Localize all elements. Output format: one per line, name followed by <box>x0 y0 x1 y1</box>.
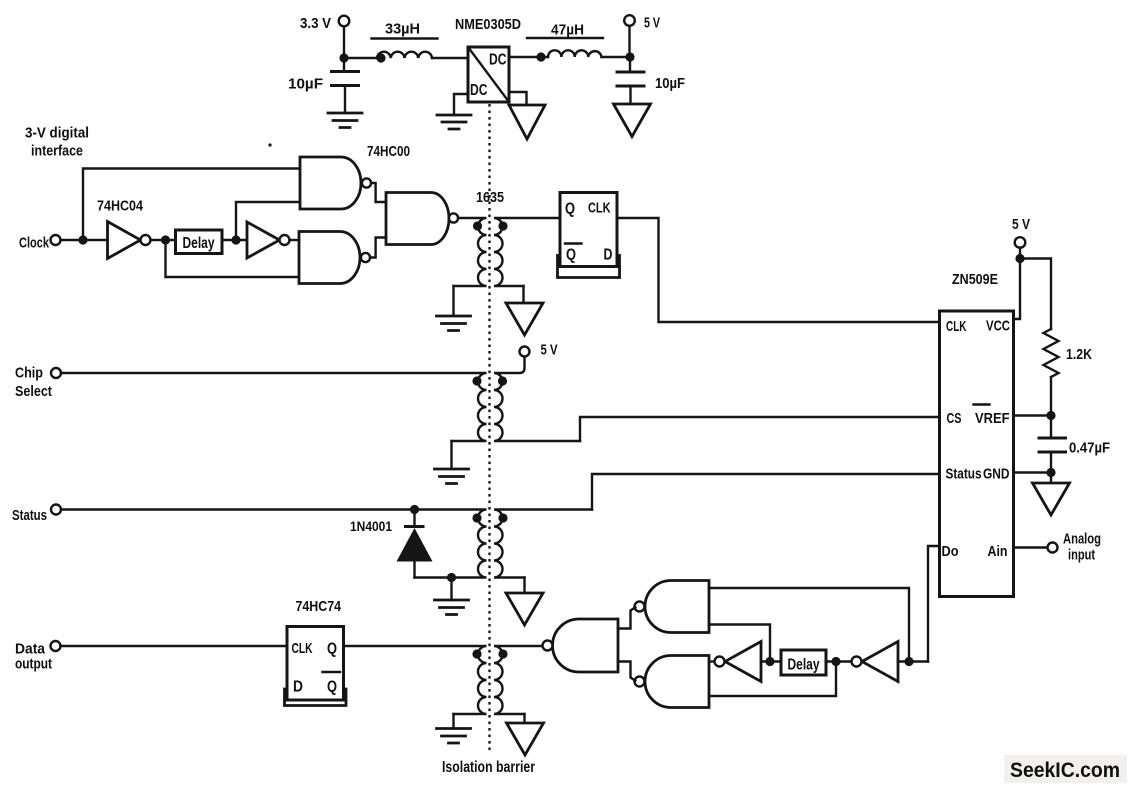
svg-text:10µF: 10µF <box>655 75 685 92</box>
svg-text:DC: DC <box>470 82 488 99</box>
svg-text:0.47µF: 0.47µF <box>1069 440 1110 457</box>
svg-text:VCC: VCC <box>986 318 1010 335</box>
svg-text:output: output <box>15 656 52 673</box>
svg-text:1N4001: 1N4001 <box>350 518 392 534</box>
svg-text:CS: CS <box>947 410 962 427</box>
svg-text:74HC74: 74HC74 <box>296 598 342 615</box>
svg-text:10µF: 10µF <box>288 76 323 93</box>
svg-text:Clock: Clock <box>19 235 49 252</box>
svg-text:interface: interface <box>31 143 83 160</box>
svg-text:Status: Status <box>946 466 982 483</box>
svg-text:5 V: 5 V <box>644 15 660 32</box>
svg-text:CLK: CLK <box>946 318 967 335</box>
svg-text:1635: 1635 <box>476 189 504 206</box>
svg-text:input: input <box>1068 547 1095 564</box>
svg-text:NME0305D: NME0305D <box>455 16 521 33</box>
svg-text:Chip: Chip <box>15 365 43 382</box>
svg-text:VREF: VREF <box>975 410 1010 427</box>
svg-text:D: D <box>293 679 303 696</box>
svg-text:ZN509E: ZN509E <box>952 271 998 288</box>
svg-text:Ain: Ain <box>988 543 1008 560</box>
svg-text:3-V digital: 3-V digital <box>25 125 89 142</box>
svg-text:Q: Q <box>566 247 576 264</box>
svg-text:D: D <box>604 247 613 264</box>
svg-text:5 V: 5 V <box>541 342 558 359</box>
svg-text:74HC04: 74HC04 <box>97 198 144 215</box>
svg-text:CLK: CLK <box>588 200 611 217</box>
svg-text:Delay: Delay <box>788 657 820 674</box>
svg-text:Q: Q <box>327 641 337 658</box>
svg-text:SeekIC.com: SeekIC.com <box>1010 759 1120 782</box>
svg-text:Status: Status <box>12 507 47 524</box>
svg-text:Q: Q <box>565 201 575 218</box>
svg-text:33µH: 33µH <box>385 21 420 38</box>
svg-text:74HC00: 74HC00 <box>367 143 410 160</box>
svg-text:Do: Do <box>942 543 959 560</box>
svg-text:1.2K: 1.2K <box>1066 346 1092 363</box>
svg-text:CLK: CLK <box>292 640 313 657</box>
svg-text:Q: Q <box>327 679 337 696</box>
svg-text:GND: GND <box>983 466 1010 483</box>
svg-text:Isolation barrier: Isolation barrier <box>442 759 535 776</box>
svg-text:5 V: 5 V <box>1012 216 1030 233</box>
svg-text:DC: DC <box>489 52 507 69</box>
svg-text:Select: Select <box>15 383 52 400</box>
svg-text:47µH: 47µH <box>551 22 584 39</box>
svg-text:Delay: Delay <box>183 235 215 252</box>
svg-text:Analog: Analog <box>1063 531 1101 548</box>
svg-text:3.3 V: 3.3 V <box>300 15 331 32</box>
